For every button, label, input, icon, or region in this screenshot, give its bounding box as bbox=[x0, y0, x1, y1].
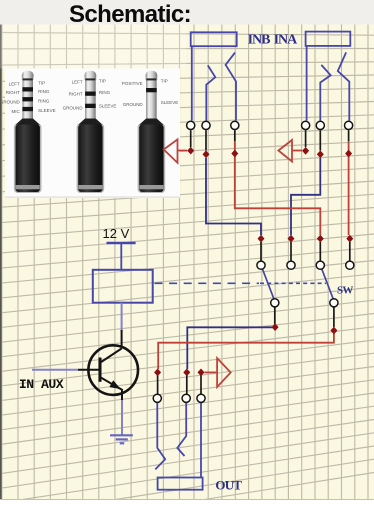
svg-text:TIP: TIP bbox=[38, 81, 45, 86]
svg-text:RING: RING bbox=[38, 99, 50, 104]
svg-text:TIP: TIP bbox=[99, 78, 106, 83]
svg-text:SLEEVE: SLEEVE bbox=[38, 108, 56, 113]
svg-text:IN AUX: IN AUX bbox=[19, 377, 64, 392]
svg-text:POSITIVE: POSITIVE bbox=[122, 81, 143, 86]
svg-text:Schematic:: Schematic: bbox=[69, 1, 191, 28]
svg-text:12 V: 12 V bbox=[103, 226, 130, 241]
svg-text:RING: RING bbox=[99, 90, 111, 95]
svg-text:SLEEVE: SLEEVE bbox=[161, 100, 179, 105]
svg-text:INB: INB bbox=[248, 33, 271, 48]
svg-text:SLEEVE: SLEEVE bbox=[99, 104, 117, 109]
svg-text:RING: RING bbox=[38, 89, 50, 94]
svg-text:GROUND: GROUND bbox=[123, 102, 144, 107]
svg-text:SW: SW bbox=[337, 285, 353, 297]
svg-text:RIGHT: RIGHT bbox=[6, 90, 20, 95]
svg-text:LEFT: LEFT bbox=[9, 82, 20, 87]
svg-text:TIP: TIP bbox=[161, 79, 168, 84]
svg-text:RIGHT: RIGHT bbox=[69, 92, 83, 97]
svg-text:LEFT: LEFT bbox=[72, 79, 83, 84]
svg-text:MIC: MIC bbox=[12, 109, 21, 114]
svg-text:GROUND: GROUND bbox=[63, 105, 84, 110]
svg-text:INA: INA bbox=[274, 33, 299, 48]
svg-text:OUT: OUT bbox=[215, 477, 242, 492]
svg-text:GROUND: GROUND bbox=[0, 100, 21, 105]
